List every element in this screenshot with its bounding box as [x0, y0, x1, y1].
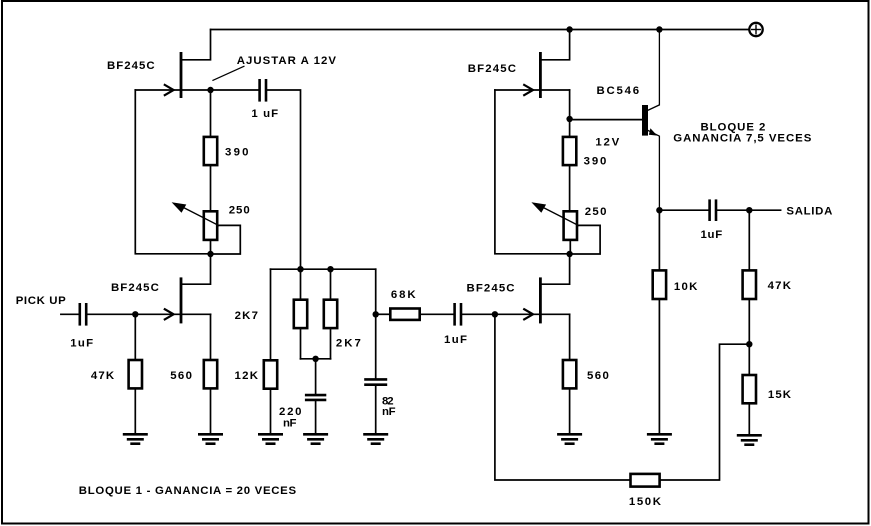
junction node: 2K7 join / 220nF [312, 356, 318, 362]
junction node: pot2 bottom [566, 251, 572, 257]
svg-text:1 uF: 1 uF [251, 108, 278, 120]
capacitor 1uF (input) [61, 304, 135, 324]
junction node: bus / 1uF drop [297, 266, 303, 272]
svg-text:47K: 47K [91, 370, 115, 382]
svg-text:560: 560 [170, 370, 192, 382]
capacitor 82 nF [366, 379, 386, 433]
capacitor 1uF (stage 1 output, top) [211, 80, 301, 298]
resistor 12K [264, 269, 277, 433]
svg-text:BLOQUE 1 - GANANCIA = 20 VECES: BLOQUE 1 - GANANCIA = 20 VECES [79, 485, 297, 497]
wire: top supply rail [211, 29, 749, 31]
svg-text:560: 560 [587, 370, 609, 382]
svg-text:47K: 47K [768, 280, 792, 292]
resistor 10K [653, 210, 666, 433]
junction node: pot1 bottom [207, 251, 213, 257]
svg-text:nF: nF [382, 406, 396, 418]
resistor 47K (output divider) [743, 210, 756, 344]
svg-text:GANANCIA 7,5 VECES: GANANCIA 7,5 VECES [673, 133, 811, 145]
resistor 2K7 (right) [324, 269, 337, 359]
svg-text:12V: 12V [595, 136, 619, 148]
wire: 2K7 pair bottom join [301, 358, 331, 360]
wire: RC network top bus [271, 268, 376, 270]
resistor 390 (stage 2) [563, 119, 576, 210]
svg-text:15K: 15K [768, 389, 792, 401]
junction node: 47K / 15K / feedback [746, 341, 752, 347]
junction node: input gate [132, 311, 138, 317]
capacitor 1uF (interstage) [455, 304, 495, 324]
wire: feedback from Q3 gate node down [495, 314, 629, 480]
junction node: Q4 source / base [566, 116, 572, 122]
svg-text:PICK UP: PICK UP [16, 295, 66, 307]
wire: bus right drop to 68K node [375, 269, 377, 378]
ground (220nF) [303, 434, 328, 443]
resistor 2K7 (left) [294, 300, 307, 359]
junction node: rail / collector [656, 26, 662, 32]
resistor 150K (feedback) [631, 344, 750, 486]
svg-text:250: 250 [585, 206, 607, 218]
capacitor 1uF (output) [659, 201, 749, 220]
resistor 390 (stage 1) [204, 90, 217, 210]
wire: Q1 gate feedback left vertical [135, 90, 210, 254]
svg-text:68K: 68K [391, 289, 416, 301]
svg-text:2K7: 2K7 [235, 310, 258, 322]
svg-text:BF245C: BF245C [111, 282, 159, 294]
ground (input 47K) [123, 434, 148, 443]
junction node: rail / Q4 drain [566, 26, 572, 32]
svg-text:390: 390 [225, 147, 249, 159]
junction node: Q1 source / 390 / cap [207, 87, 213, 93]
ground (560 stage 2) [557, 434, 582, 443]
svg-text:BF245C: BF245C [107, 60, 155, 72]
potentiometer 250 (stage 1) [172, 202, 241, 254]
svg-text:220: 220 [279, 406, 302, 418]
junction node: output cap / 47K [746, 207, 752, 213]
wire: output to SALIDA [749, 209, 780, 211]
JFET Q2 BF245C (stage 1 lower) [135, 277, 210, 323]
capacitor 220 nF [306, 359, 325, 433]
wire: Q4 source down to base node [569, 90, 571, 119]
pointer line for AJUSTAR label [213, 66, 244, 80]
junction node: bus / 2K7 right [327, 266, 333, 272]
ground (82nF) [363, 434, 388, 443]
potentiometer 250 (stage 2) [531, 202, 600, 254]
junction node: 68K left / 82nF [373, 311, 379, 317]
svg-text:150K: 150K [629, 496, 662, 508]
svg-text:10K: 10K [674, 281, 698, 293]
resistor 560 (stage 1) [204, 314, 217, 433]
ground (15K) [737, 435, 762, 444]
JFET Q3 BF245C (stage 2 lower) [495, 277, 570, 323]
ground (10K) [647, 434, 672, 443]
resistor 47K (input) [129, 314, 142, 433]
wire: pot1 junction down to Q2 drain [182, 254, 211, 284]
ground (560 stage 1) [198, 434, 223, 443]
svg-text:BF245C: BF245C [468, 63, 516, 75]
svg-text:1uF: 1uF [70, 338, 93, 350]
svg-text:nF: nF [283, 417, 297, 429]
resistor 560 (stage 2) [563, 314, 576, 433]
svg-text:BF245C: BF245C [467, 283, 515, 295]
wire: Q4 gate feedback left vertical [495, 90, 570, 254]
svg-text:390: 390 [584, 156, 607, 168]
wire: Q3 drain up to pot2 junction [541, 254, 569, 284]
resistor 68K [376, 309, 453, 320]
svg-text:12K: 12K [235, 370, 259, 382]
JFET Q1 BF245C (stage 1 upper) [135, 30, 210, 99]
resistor 15K [743, 344, 756, 434]
svg-text:AJUSTAR A 12V: AJUSTAR A 12V [237, 55, 337, 67]
transistor BC546 [570, 30, 660, 211]
svg-text:1uF: 1uF [444, 334, 467, 346]
svg-text:2K7: 2K7 [336, 337, 361, 349]
junction node: Q3 gate / feedback [492, 311, 498, 317]
svg-text:1uF: 1uF [701, 229, 723, 241]
svg-text:BC546: BC546 [597, 85, 640, 97]
junction node: emitter / output cap [656, 207, 662, 213]
ground (12K) [258, 434, 283, 443]
svg-text:SALIDA: SALIDA [786, 206, 832, 218]
svg-text:250: 250 [229, 204, 250, 216]
power terminal circle [749, 23, 762, 36]
JFET Q4 BF245C (stage 2 upper) [495, 30, 570, 99]
